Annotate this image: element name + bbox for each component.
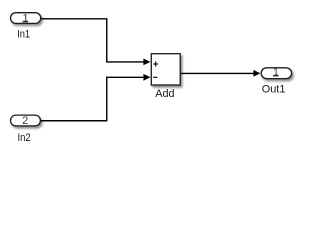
svg-text:1: 1 (273, 67, 279, 79)
svg-text:Add: Add (155, 88, 174, 100)
svg-text:In2: In2 (18, 132, 31, 144)
svg-text:1: 1 (22, 13, 28, 25)
svg-text:In1: In1 (17, 29, 30, 41)
svg-text:2: 2 (22, 115, 28, 127)
svg-text:Out1: Out1 (262, 83, 286, 95)
